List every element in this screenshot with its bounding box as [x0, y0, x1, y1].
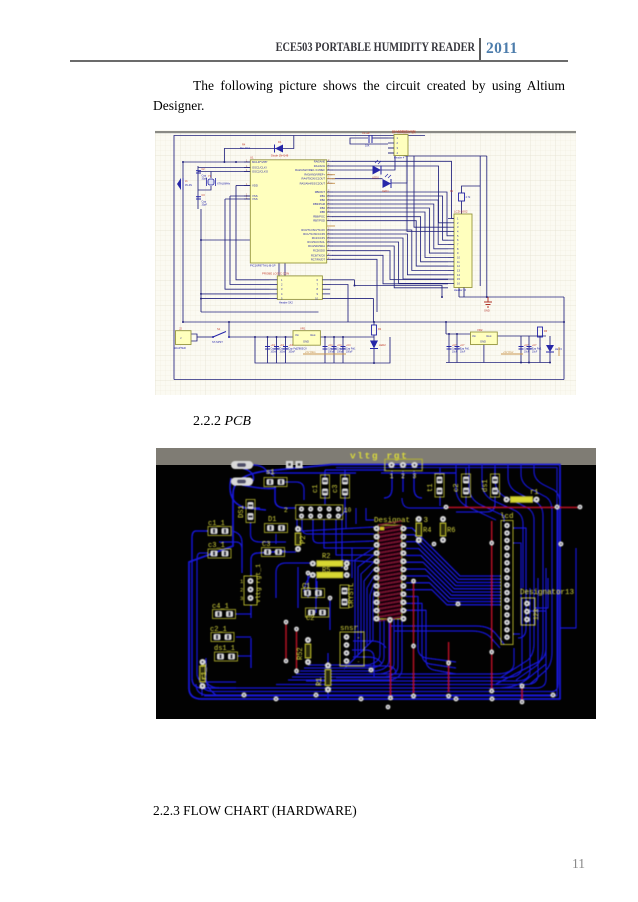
trace mid extra 2	[402, 498, 446, 508]
resistor P2	[295, 526, 308, 552]
wire LED1 out	[381, 156, 395, 170]
svg-text:RC3/SCK/SCL: RC3/SCK/SCL	[307, 240, 325, 244]
svg-text:3: 3	[240, 595, 243, 602]
trace bottom bus 6	[336, 598, 522, 678]
svg-text:RC6/TX/CK: RC6/TX/CK	[311, 253, 325, 257]
wire bus 2	[332, 196, 448, 240]
wire crystal stub bottom	[198, 186, 211, 190]
connector P1 Header 4	[388, 130, 416, 159]
wire LCD bottom stub	[458, 288, 460, 298]
trace bottom bus 7	[366, 648, 514, 674]
svg-text:r1_1: r1_1	[201, 663, 209, 680]
svg-text:LCD-16X2: LCD-16X2	[454, 210, 468, 214]
wire resistor feed	[462, 186, 481, 193]
wire bus 6	[332, 212, 448, 258]
svg-text:ST-SPST: ST-SPST	[212, 340, 223, 344]
socket DIP28 U1	[374, 521, 407, 623]
switch s1 pads	[264, 469, 287, 487]
trace tl extra 4	[219, 534, 296, 568]
svg-text:R1: R1	[316, 678, 324, 686]
red trace v6	[491, 521, 493, 691]
svg-text:RC2/CCP1: RC2/CCP1	[312, 236, 326, 240]
svg-text:Diode 1N4148: Diode 1N4148	[271, 154, 289, 158]
capacitor c3	[332, 475, 350, 498]
svg-text:C3: C3	[262, 541, 270, 549]
trace snsr link	[352, 650, 374, 678]
svg-text:RA5/AN4/SS/C2OUT: RA5/AN4/SS/C2OUT	[300, 181, 326, 185]
oval pad A	[231, 461, 253, 469]
capacitor C2b	[306, 608, 329, 623]
trace dip bottom 3	[300, 619, 389, 671]
header title	[81, 40, 475, 55]
svg-text:R6: R6	[447, 527, 455, 535]
wire switch feed	[228, 322, 230, 337]
wire bus 8	[332, 221, 448, 266]
wire top cap feed	[372, 137, 388, 139]
trace ovals link	[242, 468, 276, 489]
trace tr corner 6	[521, 465, 552, 684]
trace mid verticals	[298, 567, 330, 630]
wire vdd row	[236, 185, 250, 187]
svg-text:c2: c2	[453, 484, 461, 492]
capacitor C12	[519, 344, 535, 354]
svg-text:100uF: 100uF	[337, 352, 344, 354]
wire vss drop 2	[225, 199, 270, 289]
wire osc down	[200, 209, 202, 312]
svg-text:+C4: +C4	[346, 344, 351, 347]
trace bl curve	[206, 658, 216, 695]
trace dip right fan 8	[406, 576, 501, 599]
header lcd 16pin	[501, 521, 513, 645]
svg-text:RA3/AN3/VREF+: RA3/AN3/VREF+	[304, 173, 325, 177]
wire bus 4	[332, 204, 448, 249]
red trace v7	[521, 686, 523, 702]
svg-text:100uF: 100uF	[328, 352, 335, 354]
svg-text:R4: R4	[423, 527, 431, 535]
wire header top feed 1	[201, 239, 285, 241]
capacitor C1b	[302, 583, 325, 598]
svg-text:PROBE LOGIC CON: PROBE LOGIC CON	[262, 272, 289, 276]
trace tr corner 4	[495, 465, 534, 678]
svg-text:Res RC1: Res RC1	[240, 147, 251, 150]
trace r11 down	[201, 685, 203, 696]
trace dip bottom 6	[288, 619, 402, 680]
svg-text:U1: U1	[250, 156, 254, 160]
svg-text:-: -	[357, 635, 360, 641]
switch S1 SPST	[212, 327, 230, 344]
svg-text:RC5/SDO: RC5/SDO	[313, 249, 325, 253]
wire resistor drop	[461, 201, 463, 214]
trace board outline	[189, 465, 560, 700]
svg-text:RC4/SDI/SDA: RC4/SDI/SDA	[308, 244, 325, 248]
svg-text:+C7: +C7	[460, 344, 465, 347]
trace snsr right 1	[353, 641, 386, 648]
svg-text:Vin: Vin	[295, 333, 299, 337]
trace dip left fan 3	[350, 562, 374, 663]
wire bus 11	[332, 238, 448, 279]
trace dip low 3	[406, 610, 456, 674]
trace top-left loop	[230, 478, 266, 510]
wire vss row 2	[225, 198, 250, 200]
svg-text:S1: S1	[217, 327, 221, 331]
led LED2 green bottom left	[370, 341, 386, 349]
resistor r1	[504, 489, 540, 503]
trace bottom bus 3	[204, 568, 546, 688]
resistor R5	[310, 567, 350, 578]
svg-text:Vout: Vout	[486, 334, 492, 338]
wire vr2 cap drop 4	[528, 336, 530, 363]
svg-text:10uF: 10uF	[460, 352, 466, 354]
header year	[486, 40, 518, 58]
wire left vertical	[182, 162, 184, 322]
wire LCD bottom stub 2	[463, 288, 465, 298]
svg-text:t1: t1	[427, 484, 435, 492]
voltage regulator VR2 7805	[471, 328, 498, 345]
wire lower left horizontal	[201, 311, 319, 313]
pcb gray top bar	[156, 448, 596, 465]
wire bus 7	[332, 217, 448, 262]
wire lower rail right	[446, 362, 550, 364]
svg-text:30pF: 30pF	[202, 204, 208, 207]
wire right vertical B	[486, 156, 488, 297]
trace lcd right col2	[513, 543, 521, 623]
wire vss drop 1	[230, 196, 270, 285]
resistor R2	[310, 553, 350, 567]
trace dip left fan 2	[347, 555, 374, 666]
wire right vertical A	[479, 156, 481, 286]
capacitor C4	[265, 344, 281, 354]
trace snsr right 2	[353, 657, 382, 664]
wire sheet top and left	[174, 136, 425, 380]
trace s1 down	[275, 487, 296, 508]
svg-text:D1: D1	[268, 516, 276, 524]
wire vdd drop	[236, 186, 270, 280]
svg-text:+5V RG2: +5V RG2	[503, 351, 514, 354]
svg-text:GND: GND	[303, 340, 309, 344]
capacitor C5	[274, 344, 290, 354]
svg-text:PIC16F877A/L-B-1P: PIC16F877A/L-B-1P	[250, 264, 276, 268]
svg-text:P2: P2	[300, 536, 308, 544]
svg-text:RB0/INT: RB0/INT	[315, 190, 326, 194]
crystal CRYSTL	[340, 583, 356, 608]
voltage regulator VR1 7805	[293, 327, 320, 351]
svg-text:c3_1: c3_1	[208, 542, 225, 550]
svg-text:100uF: 100uF	[289, 352, 296, 354]
diode D1 1N4148	[271, 140, 289, 158]
microcontroller U1 PIC16F877A	[244, 156, 335, 268]
wire bus 5	[332, 208, 448, 253]
trace mid extra 3	[346, 666, 396, 674]
trace t1 c2 down	[440, 496, 495, 512]
connector P2 Header 5X2 PROBE	[262, 272, 330, 305]
header 10pin	[284, 505, 352, 519]
wire RA0 step	[332, 161, 454, 218]
PCB screenshot	[156, 448, 596, 719]
wire vr2 out rail	[497, 335, 546, 337]
header separator bar	[479, 38, 481, 61]
trace hdr to dip 2	[313, 519, 374, 543]
svg-text:3: 3	[413, 473, 417, 480]
trace mid extra 1	[346, 508, 374, 528]
resistor r1_1	[200, 659, 210, 689]
trace vltgrgt1 up	[251, 551, 286, 576]
schematic screenshot	[155, 130, 576, 395]
wire cap to corner	[350, 138, 388, 144]
trace br extra 1	[513, 578, 548, 634]
resistor R2 bottom left	[372, 325, 382, 335]
diode ds1b	[482, 474, 500, 497]
trace vltgrgt1 down	[250, 605, 252, 668]
wire vr2 cap drop 3	[520, 336, 522, 363]
capacitor c2_1	[210, 626, 234, 642]
header rule	[70, 60, 568, 62]
wire bus 9	[332, 230, 448, 271]
trace left col 2	[197, 553, 236, 682]
wire LCD ground row	[459, 296, 564, 298]
svg-text:GND: GND	[484, 309, 490, 313]
capacitor C9	[341, 344, 357, 354]
svg-text:Header 16: Header 16	[454, 288, 467, 292]
trace t1 c2 up	[440, 468, 495, 475]
svg-text:R5: R5	[322, 567, 330, 575]
heading 2.2.2	[193, 414, 251, 430]
wire cap drop 3	[285, 337, 287, 363]
red trace v2	[296, 629, 298, 671]
trace bottom bus 5	[306, 588, 530, 681]
svg-text:+5V REG: +5V REG	[305, 351, 316, 354]
wire below LCD row	[355, 286, 443, 298]
wire vr2 cap drop 2	[456, 334, 458, 363]
wire LED2 out	[391, 156, 407, 183]
trace outline inner	[204, 468, 557, 697]
wire RC6 low	[332, 255, 448, 283]
capacitor C11	[455, 344, 471, 354]
wire header row 4	[201, 293, 270, 295]
heading 2.2.3	[153, 803, 357, 819]
svg-text:RB4: RB4	[320, 206, 326, 210]
wire header right 2	[330, 285, 348, 323]
trace below lcd 1	[390, 626, 504, 644]
svg-text:+C7: +C7	[532, 344, 537, 347]
svg-text:RC7/RX/DT: RC7/RX/DT	[311, 257, 326, 261]
svg-text:10uF: 10uF	[452, 352, 458, 354]
trace dip right fan 1	[406, 528, 501, 576]
trace tr corner 3	[482, 465, 523, 588]
trace lcd right col	[513, 528, 526, 638]
wire res4 drop	[539, 336, 541, 363]
capacitor C6	[283, 344, 299, 354]
trace hdr to dip 4	[336, 519, 374, 555]
wire osc1 row	[198, 167, 250, 169]
wire vr2 in rail	[446, 333, 471, 335]
svg-text:RB3/PGM: RB3/PGM	[313, 202, 326, 206]
trace bottom right up	[560, 548, 576, 628]
svg-text:J2: J2	[179, 327, 182, 331]
wire vss row 1	[230, 195, 250, 197]
svg-text:XTAL8MHz: XTAL8MHz	[217, 182, 231, 186]
svg-text:Cap Pol1: Cap Pol1	[460, 349, 470, 351]
svg-text:ds1: ds1	[482, 479, 490, 492]
header snsr	[340, 632, 364, 666]
trace tr corner 2	[469, 465, 504, 522]
wire header right 1	[330, 279, 355, 281]
trace br extra 2	[496, 664, 546, 688]
wire right rail	[405, 155, 487, 157]
diode ds1_1	[214, 645, 238, 661]
wire LCD pin2 feed	[407, 156, 448, 232]
trace c1 c3 up	[325, 470, 386, 477]
capacitor C1 top	[362, 131, 372, 148]
trace below lcd 2	[394, 631, 500, 648]
wire header top drop 1	[278, 240, 280, 276]
svg-text:c1: c1	[312, 485, 320, 493]
capacitor C8	[332, 344, 348, 354]
resistor R4	[416, 516, 432, 543]
trace hdr3 down	[384, 471, 422, 498]
svg-text:VSS: VSS	[252, 197, 258, 201]
capacitor c1_1	[208, 520, 231, 536]
wire RA3 to LED	[332, 169, 373, 171]
svg-text:2: 2	[240, 587, 243, 594]
trace bottom bus 1	[196, 684, 556, 695]
connector J2 LCD-16X2	[448, 210, 472, 293]
trace dip left fan 6	[359, 583, 374, 654]
wire lower rail left	[255, 337, 390, 363]
svg-text:+C4: +C4	[289, 344, 294, 347]
red trace v1	[285, 622, 287, 661]
trace tl extra 5	[304, 575, 317, 598]
svg-text:Cap Pol1: Cap Pol1	[289, 349, 299, 351]
capacitor C7	[323, 344, 339, 354]
wire vr2 cap drop 1	[448, 334, 450, 363]
body paragraph	[153, 76, 565, 116]
wire led4 drop	[549, 336, 551, 363]
svg-text:123: 123	[533, 609, 540, 620]
svg-text:9V-4N: 9V-4N	[185, 184, 192, 187]
resistor R6	[440, 516, 455, 543]
svg-text:Designator13: Designator13	[520, 589, 575, 597]
trace dip right fan 2	[406, 535, 501, 579]
svg-text:C1+uF: C1+uF	[362, 131, 370, 135]
svg-text:D1: D1	[278, 140, 282, 144]
ground symbol GND	[484, 297, 492, 307]
svg-text:-: -	[357, 659, 360, 665]
svg-text:Y1: Y1	[208, 174, 212, 178]
trace dip right fan 4	[406, 549, 501, 586]
wire header top drop 2	[284, 240, 286, 276]
wire sheet bottom	[174, 379, 564, 381]
trace dip right fan 6	[406, 562, 501, 592]
svg-text:10: 10	[344, 507, 352, 514]
capacitor C13	[527, 344, 543, 354]
wire bus 10	[332, 234, 448, 275]
wire adapter stub 1	[191, 334, 197, 341]
svg-text:LED2: LED2	[379, 343, 386, 347]
svg-text:RB5: RB5	[320, 210, 326, 214]
led LED3 bottom right	[546, 345, 562, 352]
svg-text:10K: 10K	[365, 145, 370, 148]
wire diode loop	[224, 136, 293, 163]
red trace v5	[448, 642, 450, 692]
trace dip bottom 4	[296, 619, 394, 674]
svg-text:RA1/AN1: RA1/AN1	[314, 164, 326, 168]
trace left col 1	[192, 531, 236, 688]
wire header bottom join	[354, 280, 356, 286]
diode D1	[265, 516, 288, 533]
svg-text:OSC2/CLKO: OSC2/CLKO	[252, 170, 269, 174]
svg-text:100uF: 100uF	[346, 352, 353, 354]
trace tr corner 7	[534, 465, 560, 568]
trace mid col extra	[342, 543, 352, 578]
svg-text:c2_1: c2_1	[210, 626, 227, 634]
svg-text:c1_1: c1_1	[208, 520, 225, 528]
power port J1 battery arrow	[177, 178, 192, 190]
wire junction dots	[223, 161, 225, 163]
trace tr corner 5	[508, 465, 543, 680]
trace dip left fan 5	[356, 576, 374, 657]
trace dip right fan 7	[406, 569, 501, 595]
wire bus 1	[332, 192, 448, 236]
svg-text:s1: s1	[266, 469, 274, 477]
trace dip left fan 7	[362, 590, 374, 651]
trace bottom bus 4	[276, 578, 538, 685]
wire osc box	[197, 166, 199, 209]
svg-text:Vin: Vin	[472, 334, 476, 338]
wire right bus down	[563, 297, 565, 380]
trace hdr to dip 1	[302, 519, 374, 534]
net label tan marks	[303, 347, 559, 356]
trace r2 r5 left	[276, 563, 311, 598]
svg-text:RB6/PGC: RB6/PGC	[313, 215, 325, 219]
svg-text:GND: GND	[480, 340, 486, 344]
trace tl extra 1	[253, 465, 274, 476]
trace hdr to dip 0	[297, 519, 374, 531]
wire header right 3	[330, 299, 373, 322]
red trace horizontal	[446, 506, 580, 508]
svg-text:100uF: 100uF	[280, 352, 287, 354]
vias	[444, 505, 449, 510]
wire bus 12	[332, 242, 448, 283]
trace dip low 1	[406, 597, 456, 663]
svg-text:VR1: VR1	[300, 327, 306, 331]
wire rail vr1 out	[320, 336, 374, 338]
oval pad B	[231, 478, 253, 486]
wire RC7 low	[332, 259, 377, 312]
trace dip right fan 9	[406, 583, 501, 602]
resistor R1b	[316, 663, 331, 693]
trace bottom bus 2	[200, 508, 558, 692]
led LED1	[382, 174, 391, 193]
svg-text:4.7k: 4.7k	[466, 196, 471, 199]
svg-text:XC-HUMIDITY-CON: XC-HUMIDITY-CON	[392, 130, 416, 133]
svg-text:CRYSTL: CRYSTL	[348, 583, 356, 608]
capacitor c4_1	[212, 603, 236, 619]
svg-text:R52: R52	[297, 647, 305, 660]
wire cap drop 1	[267, 337, 269, 363]
trace tl extra 2	[285, 482, 304, 500]
wire LCD pin1 feed	[414, 156, 448, 227]
svg-text:10uF: 10uF	[532, 352, 538, 354]
header vltg rgt_1	[240, 564, 262, 605]
svg-text:Header 5X2: Header 5X2	[279, 301, 293, 305]
svg-text:R2: R2	[322, 553, 330, 561]
led LED0	[372, 160, 381, 180]
trace dip left fan 1	[344, 548, 374, 669]
wire cap drop 5	[333, 337, 335, 363]
svg-text:LED1: LED1	[382, 189, 389, 193]
red trace v4	[413, 581, 415, 696]
svg-text:RA4/T0CKI/C1OUT: RA4/T0CKI/C1OUT	[302, 177, 326, 181]
